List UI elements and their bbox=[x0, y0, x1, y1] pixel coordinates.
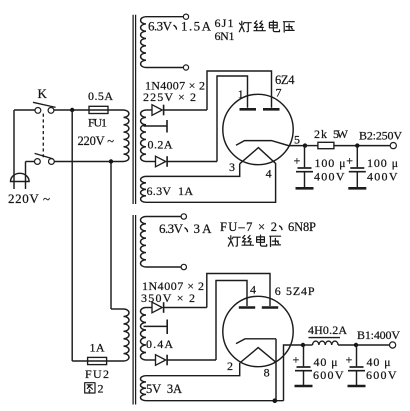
center tap HV1 bbox=[144, 120, 168, 133]
svg-text:K: K bbox=[38, 86, 48, 101]
node junction B bbox=[109, 159, 113, 163]
svg-text:5: 5 bbox=[294, 133, 300, 147]
diode D2 bbox=[156, 156, 168, 167]
plate pin6 V2 bbox=[262, 306, 278, 309]
svg-text:220V ~: 220V ~ bbox=[8, 191, 50, 206]
wire drop to T2 primary bbox=[110, 162, 112, 310]
wire route D1 to pin7 bbox=[207, 71, 272, 110]
plate pin7 bbox=[263, 108, 280, 111]
svg-text:400V: 400V bbox=[367, 169, 398, 183]
terminal heater 6J1 top bbox=[183, 14, 188, 19]
svg-text:3: 3 bbox=[229, 160, 235, 174]
label FU-7x2,6N8P bbox=[220, 220, 316, 234]
svg-text:40 μ: 40 μ bbox=[314, 355, 338, 369]
wire pin4 to heater winding bbox=[146, 164, 276, 203]
winding 350Vx2 HV bbox=[141, 308, 156, 361]
label 6.3V,1.5A bbox=[148, 19, 212, 34]
wire route D2 to pin1 bbox=[217, 76, 248, 162]
node junction A bbox=[70, 108, 74, 112]
fuse FU2 bbox=[72, 357, 123, 364]
wire lower pole to primary bbox=[54, 161, 123, 163]
svg-text:7: 7 bbox=[276, 86, 282, 100]
svg-text:3A: 3A bbox=[194, 221, 213, 236]
transformer T1 core bbox=[133, 15, 136, 204]
svg-text:FU–7 × 2: FU–7 × 2 bbox=[220, 220, 277, 234]
svg-text:6: 6 bbox=[275, 284, 281, 298]
svg-text:6Z4: 6Z4 bbox=[275, 73, 295, 87]
svg-text:4: 4 bbox=[266, 167, 272, 181]
label filament-voltage 1 bbox=[239, 21, 294, 32]
capacitor C4 40u 600V bbox=[348, 345, 366, 386]
terminal heater 6J1 bottom bbox=[183, 65, 188, 70]
cathode V2 bbox=[236, 339, 276, 344]
svg-text:2: 2 bbox=[98, 382, 104, 396]
wire output riser to choke bbox=[284, 345, 304, 401]
plate pin4 V2 bbox=[239, 306, 255, 309]
heater V2 bbox=[240, 348, 276, 363]
wire D3 to plate bbox=[164, 307, 207, 309]
wire to choke bbox=[303, 344, 313, 346]
winding 6.3V 3A bbox=[141, 217, 182, 268]
svg-text:350V × 2: 350V × 2 bbox=[141, 291, 195, 305]
inductor L1 4H0.2A bbox=[309, 338, 341, 345]
switch K bbox=[14, 102, 89, 164]
capacitor C2 100u 400V bbox=[348, 146, 366, 189]
wire 5V winding bottom to pin8 bbox=[146, 400, 284, 402]
svg-text:FU2: FU2 bbox=[85, 367, 109, 381]
svg-text:6J1: 6J1 bbox=[215, 16, 234, 30]
wire resistor to B2 bbox=[334, 145, 390, 147]
node pin8 junction bbox=[273, 398, 278, 403]
transformer T2 primary winding bbox=[124, 309, 130, 361]
label fig2 bbox=[85, 382, 104, 396]
svg-text:5Z4P: 5Z4P bbox=[286, 284, 315, 298]
capacitor C3 40u 600V bbox=[295, 345, 313, 386]
terminal B2 bbox=[390, 143, 396, 149]
svg-text:6N8P: 6N8P bbox=[288, 220, 316, 234]
svg-text:600V: 600V bbox=[313, 368, 344, 382]
wire route D4 to pin4 bbox=[216, 281, 247, 361]
svg-text:100 μ: 100 μ bbox=[367, 156, 398, 170]
wire drop to FU2 bbox=[71, 110, 73, 361]
plug P1 bbox=[11, 110, 30, 189]
diode D1 bbox=[152, 105, 164, 116]
svg-text:6N1: 6N1 bbox=[215, 29, 235, 43]
node choke input bbox=[301, 343, 305, 347]
plate pin1 bbox=[240, 108, 257, 111]
svg-text:40 μ: 40 μ bbox=[367, 355, 391, 369]
wire pin3 to heater winding bbox=[146, 164, 240, 177]
label filament-voltage 2 bbox=[228, 235, 280, 246]
svg-text:4: 4 bbox=[250, 283, 256, 297]
svg-text:+: + bbox=[294, 154, 301, 168]
node B2 junction bbox=[355, 143, 359, 147]
svg-text:8: 8 bbox=[264, 366, 270, 380]
svg-text:600V: 600V bbox=[366, 368, 397, 382]
fuse FU1 bbox=[89, 106, 124, 113]
transformer T1 primary winding bbox=[124, 110, 129, 161]
terminal heater 6N8P bottom bbox=[181, 264, 186, 269]
svg-text:B1:400V: B1:400V bbox=[357, 328, 400, 342]
svg-text:1A: 1A bbox=[90, 341, 105, 355]
svg-text:220V ~: 220V ~ bbox=[78, 134, 115, 148]
svg-text:2k: 2k bbox=[314, 127, 327, 141]
svg-text:2: 2 bbox=[227, 359, 233, 373]
svg-text:6.3V: 6.3V bbox=[148, 19, 173, 34]
wire D4 to plate bbox=[167, 359, 216, 361]
svg-text:4H0.2A: 4H0.2A bbox=[308, 323, 347, 337]
winding 6.3V 1A bbox=[141, 176, 146, 202]
heater V1 bbox=[240, 148, 276, 164]
svg-text:400V: 400V bbox=[314, 169, 345, 183]
capacitor C1 100u 400V bbox=[296, 146, 314, 189]
svg-text:225V × 2: 225V × 2 bbox=[143, 90, 196, 104]
terminal heater 6N8P top bbox=[181, 214, 186, 219]
node B1 junction bbox=[354, 343, 358, 347]
svg-text:6.3V 1A: 6.3V 1A bbox=[147, 184, 194, 198]
terminal B1 bbox=[390, 342, 396, 348]
svg-text:6.3V: 6.3V bbox=[159, 221, 184, 236]
svg-text:1.5A: 1.5A bbox=[181, 19, 212, 34]
wire pin5 to resistor bbox=[305, 145, 318, 147]
svg-text:0.2A: 0.2A bbox=[148, 138, 173, 152]
cathode V1 bbox=[236, 141, 303, 146]
center tap HV2 bbox=[144, 320, 168, 335]
svg-text:+: + bbox=[346, 154, 353, 168]
winding 5V 3A bbox=[141, 376, 147, 401]
wire pin8 cathode drop bbox=[275, 339, 277, 401]
svg-text:B2:250V: B2:250V bbox=[359, 129, 402, 143]
diode D3 bbox=[152, 302, 164, 313]
svg-text:+: + bbox=[346, 353, 353, 367]
wire T2 primary top lead bbox=[111, 308, 124, 310]
svg-text:0.5A: 0.5A bbox=[88, 89, 113, 103]
svg-text:0.4A: 0.4A bbox=[146, 337, 173, 351]
svg-text:5V 3A: 5V 3A bbox=[146, 382, 182, 396]
label 6.3V,3A bbox=[159, 221, 212, 236]
tube V2 envelope bbox=[223, 296, 293, 366]
diode D4 bbox=[156, 355, 168, 366]
wire D2 to plate bbox=[167, 161, 217, 163]
resistor R1 2k 5W bbox=[318, 142, 334, 148]
tube V1 envelope bbox=[223, 94, 293, 164]
transformer T2 core bbox=[133, 215, 136, 405]
wire choke to B1 bbox=[338, 344, 389, 346]
wire route D3 to pin6 bbox=[207, 274, 270, 308]
winding 6.3V 1.5A bbox=[141, 17, 184, 68]
svg-text:FU1: FU1 bbox=[88, 116, 107, 130]
svg-text:+: + bbox=[293, 353, 300, 367]
node pin5 junction bbox=[303, 143, 307, 147]
svg-text:100 μ: 100 μ bbox=[315, 156, 346, 170]
winding 225Vx2 HV bbox=[141, 110, 156, 162]
svg-text:5W: 5W bbox=[333, 127, 349, 141]
wire D1 to plate bbox=[164, 109, 207, 111]
wire pin2 to 5V winding bbox=[146, 363, 240, 376]
